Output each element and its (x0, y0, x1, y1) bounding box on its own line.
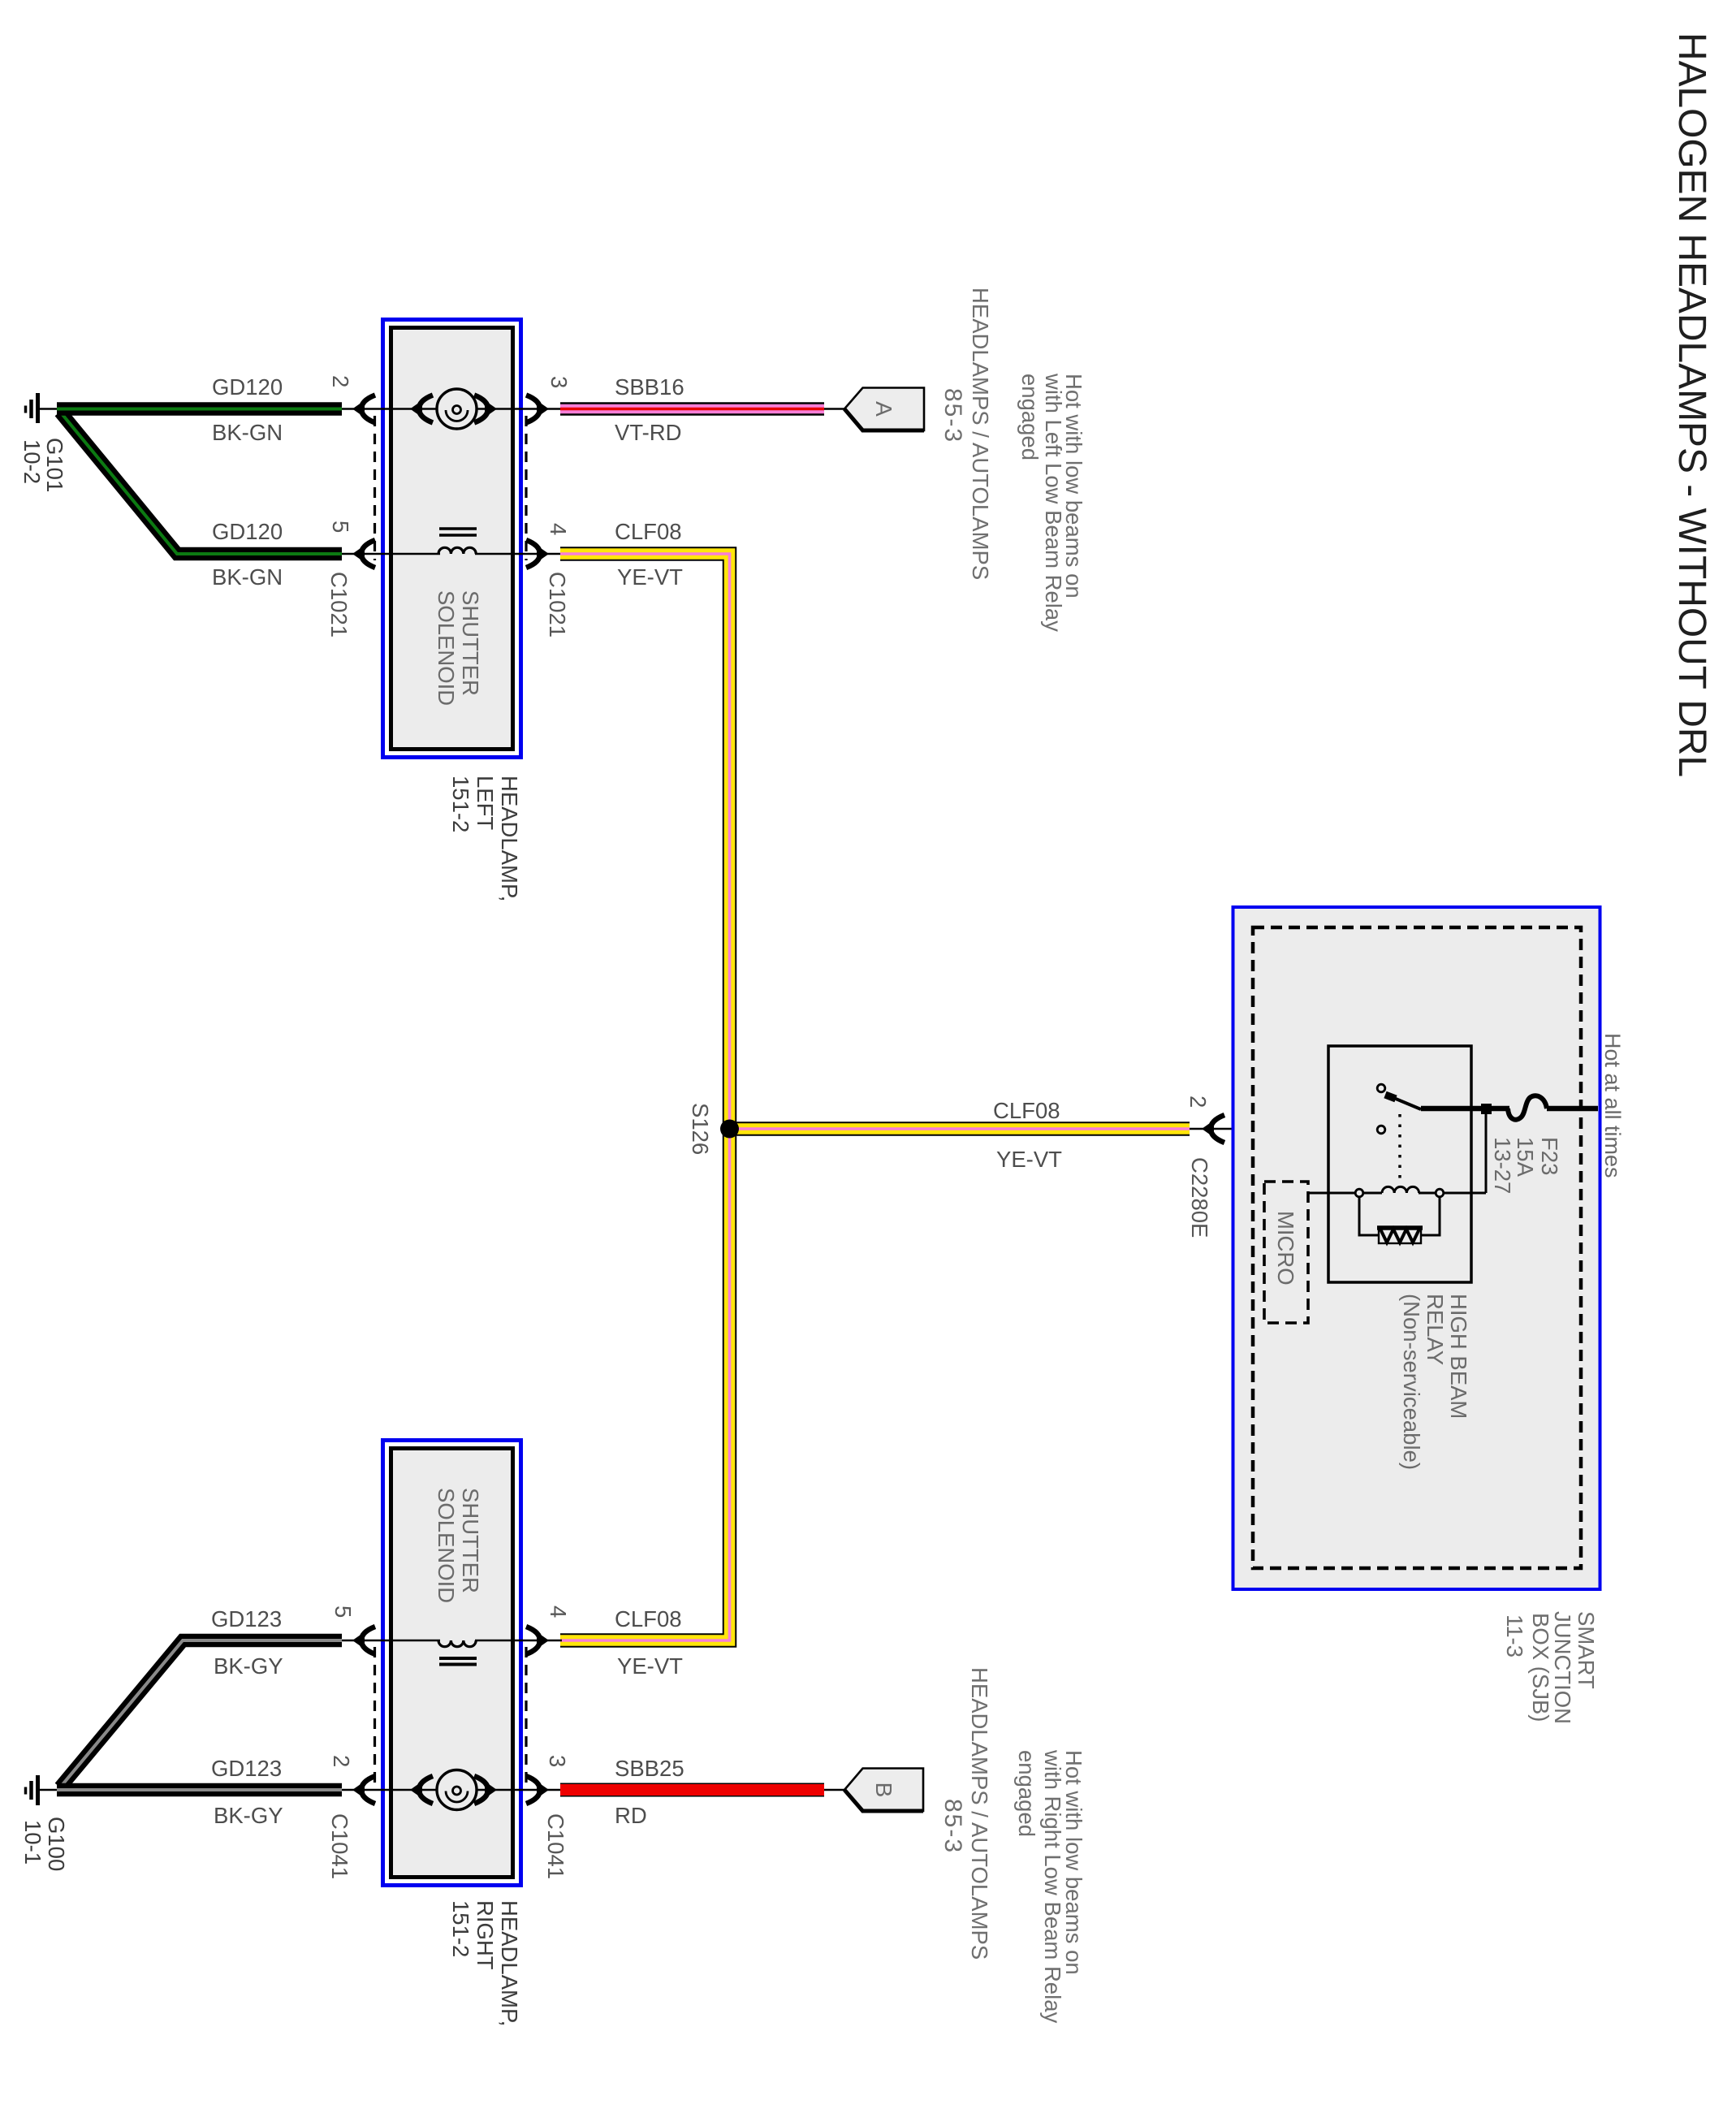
svg-text:GD123: GD123 (211, 1606, 282, 1631)
wire CLF08 YE-VT (pin4 to S126 to right headlamp) (560, 554, 730, 1640)
svg-text:(Non-serviceable): (Non-serviceable) (1399, 1294, 1424, 1470)
svg-text:F23: F23 (1537, 1137, 1562, 1175)
svg-text:GD120: GD120 (212, 519, 283, 544)
wire GD123 BK-GY (pin 5 diagonal to ground) (60, 1640, 342, 1787)
pin 4 connector arrow (526, 540, 549, 568)
svg-text:RIGHT: RIGHT (473, 1900, 498, 1970)
junction S126 (720, 1120, 739, 1139)
svg-text:G101: G101 (42, 438, 67, 492)
wire thin line pin5 row (right lamp) (342, 1640, 440, 1642)
svg-text:C1041: C1041 (327, 1813, 352, 1879)
pin 3 connector arrow (526, 395, 549, 423)
svg-text:C1021: C1021 (326, 572, 352, 637)
headlamp right component box (outer blue) (383, 1441, 521, 1886)
connector flag A (844, 388, 924, 431)
svg-text:BK-GN: BK-GN (212, 564, 283, 590)
connector C1041 dashed boundary right (525, 1647, 527, 1783)
svg-text:4: 4 (546, 523, 571, 535)
svg-text:BK-GY: BK-GY (214, 1653, 283, 1679)
svg-text:2: 2 (328, 375, 353, 387)
svg-text:SHUTTER: SHUTTER (458, 590, 483, 696)
high beam relay box (1328, 1046, 1471, 1282)
pin 5 connector arrow (352, 540, 375, 568)
svg-text:YE-VT: YE-VT (617, 1653, 683, 1679)
svg-text:HIGH BEAM: HIGH BEAM (1446, 1294, 1471, 1419)
headlamp left component box (outer blue) (383, 320, 521, 758)
svg-text:C2280E: C2280E (1187, 1157, 1212, 1238)
svg-text:85-3: 85-3 (939, 388, 966, 443)
svg-text:151-2: 151-2 (448, 1900, 473, 1957)
svg-text:5: 5 (328, 521, 353, 533)
svg-text:S126: S126 (688, 1103, 713, 1155)
svg-text:RD: RD (615, 1803, 647, 1828)
pin 2 connector arrow (352, 395, 375, 423)
svg-text:2: 2 (329, 1755, 354, 1767)
svg-text:YE-VT: YE-VT (996, 1147, 1062, 1172)
svg-text:GD120: GD120 (212, 374, 283, 400)
relay coil (1308, 1109, 1486, 1193)
svg-text:CLF08: CLF08 (993, 1098, 1060, 1123)
bulb socket arrow left (right lamp) (410, 1776, 433, 1804)
wire thin line pin2 row (342, 408, 437, 410)
pin 5 connector arrow (right lamp) (352, 1627, 375, 1654)
resistor (relay suppression) (1359, 1198, 1440, 1243)
svg-text:SBB16: SBB16 (615, 374, 684, 400)
solenoid coil, left headlamp (438, 529, 477, 554)
svg-text:SOLENOID: SOLENOID (434, 590, 459, 706)
pin 3 connector arrow (right lamp) (526, 1776, 549, 1804)
svg-text:with Right Low Beam Relay: with Right Low Beam Relay (1040, 1749, 1065, 2024)
svg-text:BK-GN: BK-GN (212, 420, 283, 445)
relay switch arm (1386, 1095, 1421, 1109)
svg-text:engaged: engaged (1014, 1750, 1039, 1837)
bulb socket arrow right (474, 395, 497, 423)
svg-text:4: 4 (546, 1606, 571, 1618)
smart junction box SJB (outer blue) (1233, 907, 1600, 1589)
svg-text:G100: G100 (44, 1817, 69, 1871)
svg-text:10-2: 10-2 (19, 439, 45, 484)
svg-text:YE-VT: YE-VT (617, 564, 683, 590)
pin 4 connector arrow (right lamp) (526, 1627, 549, 1654)
pin 2 connector arrow (right lamp) (352, 1776, 375, 1804)
wire SBB16 VT-RD (560, 402, 824, 416)
svg-text:3: 3 (545, 1755, 570, 1767)
svg-text:15A: 15A (1513, 1137, 1538, 1178)
svg-text:RELAY: RELAY (1423, 1294, 1448, 1365)
svg-text:SOLENOID: SOLENOID (434, 1488, 459, 1603)
fuse F23 (1508, 1096, 1547, 1119)
svg-text:MICRO: MICRO (1273, 1211, 1298, 1286)
svg-text:HEADLAMP,: HEADLAMP, (497, 1900, 522, 2026)
svg-text:HALOGEN HEADLAMPS - WITHOUT DR: HALOGEN HEADLAMPS - WITHOUT DRL (1670, 32, 1713, 777)
svg-text:5: 5 (330, 1606, 356, 1618)
svg-text:LEFT: LEFT (473, 776, 498, 830)
wire GD120 BK-GN (pin 5 diagonal to ground) (60, 412, 342, 554)
svg-text:85-3: 85-3 (939, 1799, 966, 1854)
wire CLF08 YE-VT (S126 to SJB) (730, 1121, 1190, 1136)
svg-text:engaged: engaged (1017, 374, 1043, 460)
svg-text:HEADLAMPS / AUTOLAMPS: HEADLAMPS / AUTOLAMPS (967, 1667, 992, 1960)
relay switch common rail (1421, 1106, 1509, 1112)
connector C1041 dashed boundary left (374, 1647, 376, 1783)
relay output contact (pin 2) (1377, 1126, 1385, 1134)
svg-text:CLF08: CLF08 (615, 519, 682, 544)
svg-text:13-27: 13-27 (1490, 1137, 1515, 1194)
ground G101 (26, 393, 59, 423)
connector flag B (844, 1769, 923, 1812)
svg-text:GD123: GD123 (211, 1756, 282, 1781)
svg-text:SHUTTER: SHUTTER (458, 1488, 483, 1593)
bulb socket arrow right (right lamp) (474, 1776, 497, 1804)
svg-text:BK-GY: BK-GY (214, 1803, 283, 1828)
svg-text:CLF08: CLF08 (615, 1606, 682, 1631)
svg-text:BOX (SJB): BOX (SJB) (1528, 1613, 1553, 1722)
bulb, left headlamp (437, 389, 477, 429)
wire thin line pin2 row (right lamp) (342, 1789, 437, 1791)
ground G100 (26, 1775, 59, 1805)
svg-text:HEADLAMPS / AUTOLAMPS: HEADLAMPS / AUTOLAMPS (968, 287, 993, 580)
bulb socket arrow left (410, 395, 433, 423)
bulb, right headlamp (437, 1770, 477, 1810)
svg-text:10-1: 10-1 (20, 1820, 45, 1865)
connector C1021 dashed boundary right (525, 416, 527, 560)
wire GD123 BK-GY (pin 2 to ground) (57, 1783, 342, 1797)
svg-text:SMART: SMART (1574, 1611, 1599, 1689)
relay NO contact (1377, 1084, 1385, 1092)
solenoid coil, right headlamp (438, 1640, 477, 1665)
svg-text:151-2: 151-2 (448, 776, 473, 832)
svg-text:HEADLAMP,: HEADLAMP, (497, 776, 522, 901)
SJB pin 2 connector arrow (1202, 1115, 1224, 1143)
svg-text:3: 3 (546, 376, 572, 388)
wire SBB25 RD (560, 1783, 824, 1797)
relay actuator dotted link (1398, 1114, 1401, 1184)
svg-text:C1041: C1041 (543, 1813, 568, 1879)
svg-text:Hot at all times: Hot at all times (1600, 1033, 1625, 1178)
svg-text:with Left Low Beam Relay: with Left Low Beam Relay (1041, 373, 1066, 632)
svg-text:SBB25: SBB25 (615, 1756, 684, 1781)
svg-text:A: A (871, 401, 896, 417)
micro control dashed box (1264, 1182, 1308, 1323)
wire thin line pin5 row (342, 553, 440, 555)
svg-text:C1021: C1021 (545, 572, 570, 637)
svg-text:11-3: 11-3 (1502, 1614, 1527, 1657)
wire GD120 BK-GN (pin 2 to ground) (57, 402, 342, 416)
svg-text:B: B (871, 1783, 896, 1798)
svg-text:VT-RD: VT-RD (615, 420, 682, 445)
junction square (1481, 1104, 1492, 1114)
SJB dashed border (1253, 927, 1581, 1568)
hot at all times feed (1547, 1106, 1598, 1112)
connector C1021 dashed boundary left (374, 416, 376, 560)
svg-text:2: 2 (1185, 1096, 1211, 1108)
